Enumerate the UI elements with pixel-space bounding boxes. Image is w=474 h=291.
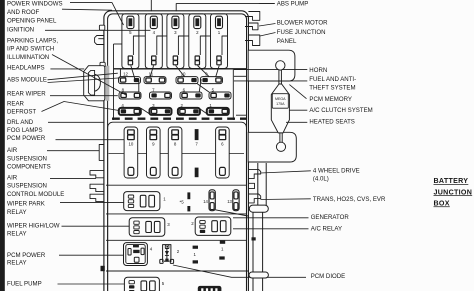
svg-text:OPENING PANEL: OPENING PANEL xyxy=(7,17,57,24)
svg-text:AND ROOF: AND ROOF xyxy=(7,9,39,16)
svg-text:THEFT SYSTEM: THEFT SYSTEM xyxy=(309,84,355,91)
svg-text:SUSPENSION: SUSPENSION xyxy=(7,156,47,163)
svg-text:COMPONENTS: COMPONENTS xyxy=(7,164,51,171)
svg-text:IGNITION: IGNITION xyxy=(7,26,34,33)
svg-text:AIR: AIR xyxy=(7,174,18,181)
svg-text:4 WHEEL DRIVE: 4 WHEEL DRIVE xyxy=(313,167,360,174)
svg-text:*5: *5 xyxy=(180,200,185,205)
svg-text:FUEL AND ANTI-: FUEL AND ANTI- xyxy=(309,76,356,83)
svg-text:JUNCTION: JUNCTION xyxy=(434,188,473,196)
svg-text:PARKING LAMPS,: PARKING LAMPS, xyxy=(7,38,58,45)
svg-text:RELAY: RELAY xyxy=(7,209,27,216)
svg-text:AIR: AIR xyxy=(7,147,18,154)
svg-text:HORN: HORN xyxy=(309,67,327,74)
svg-text:CONTROL MODULE: CONTROL MODULE xyxy=(7,191,64,198)
svg-text:10: 10 xyxy=(128,142,133,147)
svg-text:14: 14 xyxy=(203,199,208,204)
svg-text:RELAY: RELAY xyxy=(7,230,27,237)
svg-text:POWER WINDOWS: POWER WINDOWS xyxy=(7,1,63,8)
svg-text:REAR WIPER: REAR WIPER xyxy=(7,91,46,98)
svg-text:REAR: REAR xyxy=(7,100,25,107)
svg-text:WIPER HIGH/LOW: WIPER HIGH/LOW xyxy=(7,223,60,230)
svg-text:SUSPENSION: SUSPENSION xyxy=(7,183,47,190)
svg-text:RELAY: RELAY xyxy=(7,260,27,267)
svg-text:BOX: BOX xyxy=(434,199,450,207)
svg-text:DEFROST: DEFROST xyxy=(7,109,36,116)
svg-text:I/P AND SWITCH: I/P AND SWITCH xyxy=(7,46,54,53)
svg-text:BLOWER MOTOR: BLOWER MOTOR xyxy=(277,20,328,27)
svg-text:TRANS, HO2S, CVS, EVR: TRANS, HO2S, CVS, EVR xyxy=(313,196,386,203)
svg-text:WIPER PARK: WIPER PARK xyxy=(7,201,45,208)
svg-text:ABS MODULE: ABS MODULE xyxy=(7,76,47,83)
svg-text:MEGA: MEGA xyxy=(275,97,286,101)
svg-text:DRL AND: DRL AND xyxy=(7,119,34,126)
svg-text:PCM MEMORY: PCM MEMORY xyxy=(309,96,352,103)
svg-text:12: 12 xyxy=(123,72,128,77)
svg-text:PCM POWER: PCM POWER xyxy=(7,135,46,142)
svg-text:ABS PUMP: ABS PUMP xyxy=(277,1,309,8)
svg-text:PCM POWER: PCM POWER xyxy=(7,252,46,259)
svg-text:A/C CLUTCH SYSTEM: A/C CLUTCH SYSTEM xyxy=(309,107,372,114)
svg-text:HEADLAMPS: HEADLAMPS xyxy=(7,65,45,72)
svg-text:FUEL PUMP: FUEL PUMP xyxy=(7,281,42,288)
svg-text:A/C RELAY: A/C RELAY xyxy=(311,226,342,233)
svg-text:BATTERY: BATTERY xyxy=(434,177,469,185)
svg-text:(4.0L): (4.0L) xyxy=(313,176,329,183)
svg-text:GENERATOR: GENERATOR xyxy=(311,214,350,221)
svg-text:FUSE JUNCTION: FUSE JUNCTION xyxy=(277,29,326,36)
svg-text:13: 13 xyxy=(227,199,232,204)
svg-text:HEATED SEATS: HEATED SEATS xyxy=(309,119,355,126)
svg-text:175A: 175A xyxy=(276,102,285,106)
svg-text:PANEL: PANEL xyxy=(277,38,297,45)
svg-text:PCM DIODE: PCM DIODE xyxy=(311,273,346,280)
svg-text:FOG LAMPS: FOG LAMPS xyxy=(7,127,43,134)
svg-text:ILLUMINATION: ILLUMINATION xyxy=(7,54,49,61)
